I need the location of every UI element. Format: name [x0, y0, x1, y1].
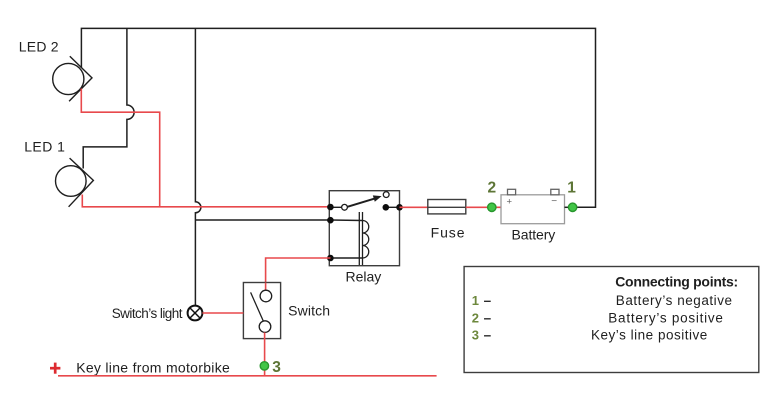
fuse F1 body — [428, 200, 466, 214]
wire: LED1 red output / main red bus to relay — [82, 195, 330, 207]
wire: switch bottom to key line (red) — [264, 332, 266, 375]
LED D1 circle — [56, 166, 87, 197]
relay contact line from left dot to circle — [331, 206, 342, 208]
battery terminal + stub — [508, 189, 516, 195]
svg-text:Fuse: Fuse — [431, 224, 465, 240]
wire: top bus — [81, 28, 595, 207]
relay coil arcs — [363, 221, 369, 259]
relay contact: NO open circle — [383, 192, 389, 198]
relay link from NO dot to right edge — [386, 206, 400, 208]
relay armature arrow — [347, 198, 375, 206]
wire: key line from motorbike (red) — [58, 375, 437, 377]
svg-text:+: + — [507, 196, 513, 207]
junction dot: relay NO contact — [383, 204, 390, 211]
svg-text:Switch: Switch — [288, 303, 330, 319]
switch SW1 box — [243, 283, 280, 339]
battery terminal - stub — [551, 189, 559, 195]
lamp X stroke 1 — [190, 308, 200, 318]
wire: relay coil- to switch (red) — [266, 258, 331, 283]
svg-text:Key’s line positive: Key’s line positive — [591, 328, 707, 343]
node 2: battery positive green terminal — [488, 203, 496, 211]
svg-text:Relay: Relay — [346, 269, 382, 285]
svg-text:Connecting points:: Connecting points: — [615, 274, 738, 290]
svg-text:2: 2 — [488, 180, 497, 197]
svg-text:LED 1: LED 1 — [24, 138, 65, 154]
svg-text:3: 3 — [272, 359, 281, 376]
svg-text:Battery’s negative: Battery’s negative — [616, 293, 732, 308]
svg-text:2: 2 — [472, 311, 479, 326]
lamp: switch's light circle — [188, 306, 203, 321]
svg-text:Battery: Battery — [512, 226, 556, 242]
wire: black branch to relay coil top — [195, 219, 330, 221]
node 3: key line green terminal — [260, 362, 268, 370]
LED D2 chevron — [69, 56, 92, 101]
wire: LED1 feed from top bus — [83, 28, 134, 168]
switch lever — [251, 292, 264, 321]
svg-text:1: 1 — [472, 293, 479, 308]
LED D2 circle — [53, 63, 84, 94]
svg-text:–: – — [484, 311, 492, 326]
svg-text:Key line from motorbike: Key line from motorbike — [76, 359, 230, 375]
switch top contact circle — [260, 290, 272, 302]
junction dot: relay pin coil+ — [327, 217, 334, 224]
junction dot: relay right edge — [396, 204, 403, 211]
svg-text:−: − — [551, 196, 557, 207]
LED D1 chevron — [69, 158, 94, 207]
svg-text:3: 3 — [472, 328, 479, 343]
battery BT1 body — [501, 195, 565, 224]
legend box — [464, 267, 759, 373]
node 1: battery negative green terminal — [568, 203, 576, 211]
svg-text:Battery’s positive: Battery’s positive — [608, 311, 723, 326]
wire: LED2 red output — [81, 89, 159, 207]
wire: lamp to switch (red) — [202, 312, 243, 314]
switch wire inside top (red) — [265, 283, 267, 291]
relay coil top link — [331, 219, 363, 222]
wire: lamp/relay black drop from top bus — [195, 28, 201, 305]
wire: relay to fuse (red) — [400, 206, 428, 208]
key line plus mark (red) — [50, 367, 60, 370]
svg-text:–: – — [484, 293, 492, 308]
svg-text:LED 2: LED 2 — [19, 39, 59, 55]
fuse F1 through line — [428, 206, 466, 208]
relay coil bottom link — [331, 257, 363, 259]
junction dot: relay pin common — [327, 204, 334, 211]
relay coil core (double bar) — [358, 212, 360, 265]
svg-text:–: – — [484, 328, 492, 343]
svg-text:1: 1 — [567, 180, 576, 197]
wire: battery negative to right bus (black) — [565, 206, 577, 208]
relay box U1 — [329, 191, 399, 266]
relay contact: common open circle — [342, 204, 348, 210]
lamp X stroke 2 — [190, 308, 200, 318]
junction dot: relay pin coil- — [327, 255, 334, 262]
svg-text:Switch’s light: Switch’s light — [112, 306, 183, 321]
switch bottom contact circle — [259, 321, 271, 333]
wire: fuse to battery positive (red) — [466, 206, 501, 208]
